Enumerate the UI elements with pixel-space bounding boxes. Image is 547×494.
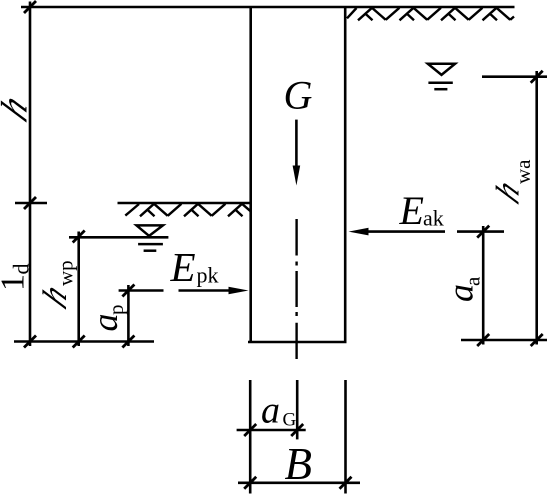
svg-text:1: 1 [0, 274, 31, 291]
G force arrow shaft [295, 120, 298, 172]
ground line left [118, 202, 251, 205]
wall bottom edge [248, 341, 347, 344]
wall right edge [344, 7, 347, 342]
water table symbol left [137, 225, 163, 250]
svg-text:a: a [85, 314, 125, 332]
svg-text:a: a [461, 276, 485, 286]
dimension line a_a [482, 226, 485, 345]
bottom-right extension line [461, 339, 547, 342]
ground hatch right [347, 8, 514, 20]
left main dimension line h and 1d [29, 2, 32, 347]
dimension line h_wa [535, 71, 538, 345]
svg-text:B: B [285, 439, 313, 489]
left ground level extension at dim line [15, 202, 47, 205]
bottom-left extension line [14, 340, 154, 343]
E_ak force arrow shaft [365, 230, 445, 233]
B dimension line [238, 481, 360, 484]
E_pk force arrow shaft [179, 289, 233, 292]
svg-text:wa: wa [511, 159, 535, 184]
a_p top extension segment [119, 289, 164, 292]
svg-text:d: d [9, 264, 34, 275]
G arrowhead [293, 166, 301, 186]
svg-text:p: p [104, 305, 128, 316]
wall left edge [249, 7, 252, 342]
ground hatch left [125, 204, 250, 217]
E_pk arrowhead [229, 287, 249, 295]
wall centre dash-dot line [295, 219, 297, 359]
svg-text:wp: wp [54, 260, 78, 286]
dimension line h_wp [77, 232, 80, 347]
right water level extension [482, 75, 547, 78]
below-wall extension verticals (B & a_G) [249, 380, 252, 494]
top ground/extension line [21, 6, 515, 9]
svg-text:G: G [284, 73, 313, 118]
dimension line a_p [127, 285, 130, 346]
a_G dimension line [237, 429, 306, 432]
left water level extension [69, 236, 168, 239]
E_ak right extension segment [457, 230, 504, 233]
arrowheads [229, 166, 369, 295]
E_ak arrowhead [349, 228, 369, 236]
water table symbol right [428, 64, 455, 89]
